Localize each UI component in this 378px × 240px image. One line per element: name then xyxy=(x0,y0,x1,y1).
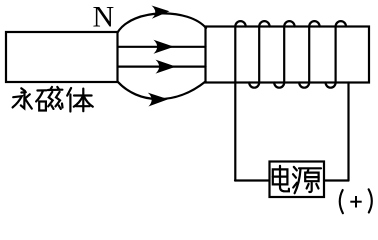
arrow on lower straight line xyxy=(156,60,177,74)
right lead wire down xyxy=(347,83,349,181)
bottom wire right xyxy=(324,179,349,181)
coil top loop 2 xyxy=(259,21,269,26)
char 体 xyxy=(67,88,93,112)
coil turn 2 vertical xyxy=(258,27,260,83)
coil bottom loop 4 xyxy=(326,83,336,88)
field line straight upper xyxy=(118,46,206,48)
arrow on bottom arc xyxy=(148,93,168,107)
label (+) plus sign xyxy=(350,196,361,208)
coil turn 4 vertical xyxy=(308,27,310,83)
bottom wire left xyxy=(235,179,270,181)
char 电 xyxy=(273,166,289,192)
coil bottom loop 2 xyxy=(274,83,284,88)
field line bottom arc xyxy=(118,82,206,100)
coil turn 5 vertical xyxy=(335,27,337,83)
coil top loop 1 xyxy=(235,21,245,26)
arrow on top arc xyxy=(152,6,170,19)
permanent magnet bar xyxy=(6,32,118,82)
power supply box xyxy=(270,162,325,198)
coil top loop 3 xyxy=(284,21,294,26)
field line top arc xyxy=(118,13,207,32)
coil turn 3 vertical xyxy=(283,27,285,83)
char 磁 xyxy=(36,87,62,111)
field line straight lower xyxy=(118,65,206,67)
iron core xyxy=(206,27,370,83)
char 源 xyxy=(293,167,321,193)
coil top loop 4 xyxy=(309,21,319,26)
coil turn 1 vertical / left lead xyxy=(234,27,236,181)
label (+) left paren xyxy=(340,190,343,213)
svg-text:N: N xyxy=(93,0,115,33)
text 永磁体 (drawn strokes) xyxy=(13,87,93,112)
arrow on upper straight line xyxy=(154,40,175,54)
label (+) right paren xyxy=(369,189,372,212)
coil top loop 5 xyxy=(336,21,346,26)
char 永 xyxy=(13,88,32,108)
coil bottom loop 3 xyxy=(299,83,309,88)
text 电源 (drawn strokes) xyxy=(273,166,321,193)
coil bottom loop 1 xyxy=(249,83,259,88)
arrowheads xyxy=(148,6,176,107)
